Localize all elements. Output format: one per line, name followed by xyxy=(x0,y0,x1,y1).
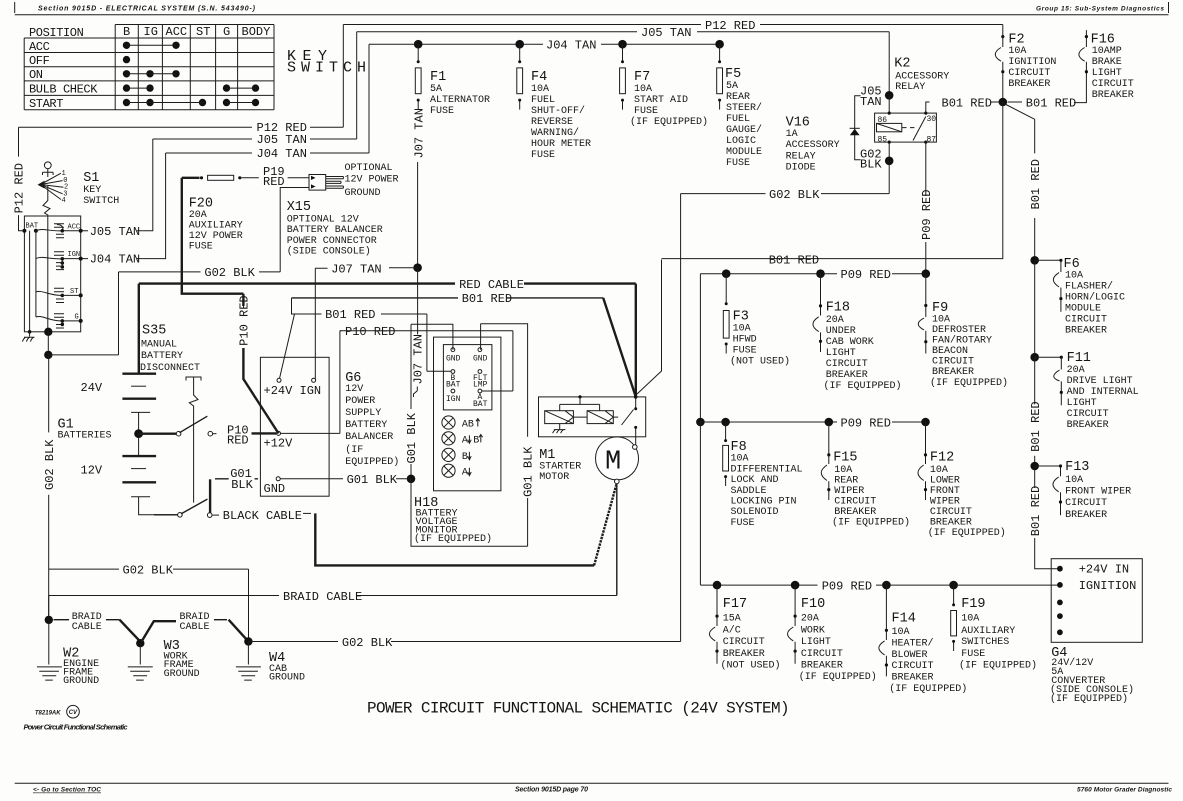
svg-text:(IF EQUIPPED): (IF EQUIPPED) xyxy=(959,660,1037,672)
svg-text:G01 BLK: G01 BLK xyxy=(347,473,398,487)
battery mid tap junction xyxy=(134,429,143,438)
wire P10 RED label row xyxy=(340,330,513,332)
wire J05 TAN drop to K2 xyxy=(888,32,890,96)
wire P12 RED left row xyxy=(19,126,344,128)
svg-text:BRAKE: BRAKE xyxy=(1092,57,1122,68)
svg-text:CV: CV xyxy=(69,710,78,716)
wire P19 RED to X15 xyxy=(288,177,309,179)
ground W2 junction xyxy=(45,616,53,624)
wire solenoid to motor terminal xyxy=(635,437,637,445)
svg-text:12V: 12V xyxy=(81,464,103,478)
junction B01/F2 xyxy=(999,98,1008,107)
wire J04 TAN left row xyxy=(166,152,369,154)
solenoid coil link xyxy=(573,416,618,418)
connector X15 xyxy=(309,175,326,191)
G4 pins xyxy=(1057,566,1063,572)
svg-text:BLK: BLK xyxy=(231,478,253,492)
svg-text:(NOT USED): (NOT USED) xyxy=(721,660,781,672)
wire X15 ground exit xyxy=(280,188,309,272)
svg-text:SADDLE: SADDLE xyxy=(731,486,767,497)
svg-text:AND INTERNAL: AND INTERNAL xyxy=(1067,387,1139,398)
svg-text:BREAKER: BREAKER xyxy=(1067,420,1109,431)
wire BRAID CABLE long row xyxy=(49,595,617,597)
svg-text:DRIVE LIGHT: DRIVE LIGHT xyxy=(1067,376,1133,387)
svg-text:F15: F15 xyxy=(833,451,857,466)
svg-text:G02 BLK: G02 BLK xyxy=(342,636,393,650)
svg-text:MOTOR: MOTOR xyxy=(539,472,569,483)
svg-text:12V POWER: 12V POWER xyxy=(189,231,243,242)
junction J05/K2 xyxy=(885,91,894,100)
wire P09 bus row2 to row3 xyxy=(699,422,701,585)
svg-text:(IF EQUIPPED): (IF EQUIPPED) xyxy=(414,533,492,545)
svg-text:SWITCH: SWITCH xyxy=(83,196,119,207)
ground symbol W4 xyxy=(236,667,261,680)
svg-text:BLK: BLK xyxy=(860,158,882,172)
G6 +24V pin xyxy=(277,378,281,382)
G6 GND pin xyxy=(276,477,280,481)
svg-text:STARTER: STARTER xyxy=(539,462,581,473)
starter solenoid box xyxy=(539,397,646,437)
H18 B BAT / FLT LMP pins xyxy=(451,370,455,374)
svg-text:G: G xyxy=(75,314,79,322)
svg-text:F17: F17 xyxy=(723,597,747,612)
svg-text:P09 RED: P09 RED xyxy=(841,416,891,430)
svg-text:(IF EQUIPPED): (IF EQUIPPED) xyxy=(799,671,877,683)
wire P09 RED row 3 xyxy=(700,584,1057,586)
svg-text:24V: 24V xyxy=(81,381,103,395)
svg-text:HOUR METER: HOUR METER xyxy=(531,139,591,150)
svg-text:1A: 1A xyxy=(786,129,798,140)
wire K2 30 riser to B01 RED xyxy=(926,102,1003,113)
table row OFF dot xyxy=(123,56,130,63)
breaker F13 xyxy=(1035,466,1061,515)
svg-text:G02 BLK: G02 BLK xyxy=(123,563,174,577)
svg-text:BRAID CABLE: BRAID CABLE xyxy=(283,590,362,604)
junction row3/F10 xyxy=(791,581,800,590)
wire riser P12 RED xyxy=(342,25,344,128)
svg-text:Power Circuit Functional Schem: Power Circuit Functional Schematic xyxy=(24,723,129,732)
wire G02 BLK left bottom row xyxy=(49,568,249,570)
svg-text:10A: 10A xyxy=(1065,475,1083,486)
svg-text:10A: 10A xyxy=(1065,271,1083,282)
G6 IGN pin xyxy=(312,378,316,382)
svg-text:12V: 12V xyxy=(345,384,363,395)
svg-text:ACC: ACC xyxy=(166,25,188,39)
svg-text:CIRCUIT: CIRCUIT xyxy=(801,649,843,660)
svg-text:START: START xyxy=(29,97,63,111)
G6 +12V pin xyxy=(277,431,281,435)
svg-text:GAUGE/: GAUGE/ xyxy=(726,124,762,136)
junction B01/F13 xyxy=(1030,462,1039,471)
svg-text:REVERSE: REVERSE xyxy=(531,117,573,128)
breaker F16 xyxy=(1074,30,1086,103)
ground W4 junction xyxy=(244,637,252,645)
junction J04/F4 xyxy=(515,40,524,49)
svg-text:B01 RED: B01 RED xyxy=(1029,159,1043,209)
balancer G6 box xyxy=(260,357,329,496)
junction row2/F15 xyxy=(825,418,834,427)
svg-text:B: B xyxy=(473,435,479,446)
chassis ground under S1 xyxy=(23,332,35,342)
table row START dots xyxy=(123,99,130,106)
svg-text:(IF EQUIPPED): (IF EQUIPPED) xyxy=(928,527,1006,539)
diode V16 branch wire xyxy=(855,96,861,160)
svg-text:ACCESSORY: ACCESSORY xyxy=(786,140,840,151)
svg-text:P10 RED: P10 RED xyxy=(238,295,252,345)
key switch S1 rotary fan xyxy=(38,181,45,189)
svg-text:+24V IN: +24V IN xyxy=(1079,563,1129,577)
svg-text:POWER CONNECTOR: POWER CONNECTOR xyxy=(287,236,377,247)
svg-text:START AID: START AID xyxy=(634,95,688,106)
svg-text:FUEL: FUEL xyxy=(531,95,555,106)
svg-text:POWER: POWER xyxy=(345,396,375,407)
breaker F9 xyxy=(918,274,926,354)
svg-text:G01 BLK: G01 BLK xyxy=(522,446,536,497)
wire B BAT riser xyxy=(427,314,453,371)
svg-text:(NOT USED): (NOT USED) xyxy=(730,356,790,368)
S1 box bottom junction xyxy=(44,328,52,336)
junction row1/F9 xyxy=(922,269,931,278)
wire H18 GND1 to G01 riser xyxy=(411,324,453,350)
wire W2 ground lead xyxy=(48,620,50,665)
breaker F6 xyxy=(1035,260,1061,311)
wire G02 BLK far-left vertical xyxy=(48,355,50,620)
key switch spring zigzag xyxy=(43,186,50,216)
key switch position table grid xyxy=(24,25,274,110)
svg-text:CAB WORK: CAB WORK xyxy=(826,337,874,348)
svg-text:(SIDE CONSOLE): (SIDE CONSOLE) xyxy=(287,246,371,258)
svg-text:F7: F7 xyxy=(634,70,650,85)
svg-text:BEACON: BEACON xyxy=(932,346,968,357)
svg-text:AUXILIARY: AUXILIARY xyxy=(961,626,1015,637)
H18 lamp A down B up xyxy=(442,432,455,445)
svg-text:LOWER: LOWER xyxy=(930,476,960,487)
svg-text:12V POWER: 12V POWER xyxy=(345,174,399,185)
svg-text:F16: F16 xyxy=(1091,32,1115,47)
wire K2 85 to G02 junction xyxy=(888,142,890,194)
svg-text:ACCESSORY: ACCESSORY xyxy=(895,72,949,83)
svg-text:F3: F3 xyxy=(733,310,749,325)
wire P09 RED row 2 xyxy=(700,421,925,423)
S35 upper right terminal xyxy=(208,431,213,436)
svg-text:F12: F12 xyxy=(930,451,954,466)
wire P12 RED left vertical to BAT xyxy=(19,127,25,231)
svg-text:LIGHT: LIGHT xyxy=(1092,68,1122,79)
svg-text:G: G xyxy=(223,25,230,39)
svg-text:S35: S35 xyxy=(142,323,166,338)
wire J04 TAN top row xyxy=(369,43,720,45)
svg-text:GROUND: GROUND xyxy=(63,676,99,687)
junction row3/F17 xyxy=(713,581,722,590)
wire J04 TAN vertical to key switch xyxy=(142,153,165,259)
wire B01 RED vertical from F2 xyxy=(662,102,1003,259)
header rule xyxy=(15,2,1169,15)
solenoid coil bridge xyxy=(560,397,600,411)
svg-text:5760 Motor Grader Diagnostic: 5760 Motor Grader Diagnostic xyxy=(1077,787,1172,794)
fuse F19 xyxy=(953,585,955,605)
wire A BAT riser xyxy=(480,331,513,391)
svg-text:B01 RED: B01 RED xyxy=(1029,401,1043,451)
junction J04/F1 xyxy=(414,40,423,49)
svg-text:RELAY: RELAY xyxy=(786,151,816,162)
solenoid switch blade xyxy=(622,397,636,437)
svg-text:Group 15: Sub-System Diagnosti: Group 15: Sub-System Diagnostics xyxy=(1036,6,1164,13)
motor upper terminal xyxy=(633,445,638,450)
svg-text:WIPER: WIPER xyxy=(930,497,960,508)
svg-text:IGN: IGN xyxy=(68,251,81,259)
junction bus/row2 xyxy=(696,418,705,427)
svg-text:A: A xyxy=(462,468,468,479)
svg-text:KEY: KEY xyxy=(83,185,101,196)
braid cable label dash W2 xyxy=(54,619,70,621)
svg-text:LOCKING PIN: LOCKING PIN xyxy=(731,497,797,508)
svg-text:FAN/ROTARY: FAN/ROTARY xyxy=(932,335,992,347)
S35 upper left terminal xyxy=(176,431,181,436)
table row BULB CHECK dots xyxy=(123,84,130,91)
svg-text:(IF EQUIPPED): (IF EQUIPPED) xyxy=(832,517,910,529)
wire P09 bus row1 to row2 xyxy=(699,274,701,422)
svg-text:CIRCUIT: CIRCUIT xyxy=(932,357,974,368)
svg-text:ACC: ACC xyxy=(29,40,50,54)
svg-text:F19: F19 xyxy=(961,597,985,612)
svg-text:REAR: REAR xyxy=(834,476,858,487)
svg-text:DISCONNECT: DISCONNECT xyxy=(140,363,200,374)
svg-text:CIRCUIT: CIRCUIT xyxy=(834,497,876,508)
svg-text:OPTIONAL: OPTIONAL xyxy=(345,163,393,174)
svg-text:IG: IG xyxy=(144,25,158,39)
battery + stem to RED CABLE xyxy=(138,284,140,374)
S35 lower left terminal xyxy=(178,513,183,518)
ST contact row xyxy=(54,288,64,302)
svg-text:MODULE: MODULE xyxy=(1065,304,1101,315)
diagonal B01 to right bus xyxy=(1004,104,1035,120)
ground symbol W3 xyxy=(128,667,153,680)
junction G02/K2 xyxy=(885,157,894,166)
S35 upper blade xyxy=(180,416,208,433)
svg-text:15A: 15A xyxy=(723,614,741,625)
svg-text:J04 TAN: J04 TAN xyxy=(90,253,140,267)
battery G1 12V cell plates xyxy=(138,434,140,456)
svg-text:P12 RED: P12 RED xyxy=(705,19,755,33)
svg-text:J07 TAN: J07 TAN xyxy=(412,108,426,158)
svg-text:ST: ST xyxy=(70,288,78,296)
svg-text:BATTERY: BATTERY xyxy=(345,420,387,431)
svg-text:10A: 10A xyxy=(731,454,749,465)
svg-text:HORN/LOGIC: HORN/LOGIC xyxy=(1065,292,1125,304)
junction row1/F18 xyxy=(816,269,825,278)
wire P12 RED top row xyxy=(343,24,1003,26)
svg-text:BALANCER: BALANCER xyxy=(345,432,393,443)
breaker F11 xyxy=(1035,357,1062,405)
junction G01 BLK xyxy=(407,475,416,484)
monitor H18 outer box xyxy=(434,337,501,491)
svg-text:J04 TAN: J04 TAN xyxy=(546,39,596,53)
H18 IGN / A BAT pins xyxy=(451,389,455,393)
H18 lamp AB up xyxy=(442,416,455,429)
svg-text:FLASHER/: FLASHER/ xyxy=(1065,281,1113,293)
svg-text:S1: S1 xyxy=(83,171,99,186)
svg-text:B01 RED: B01 RED xyxy=(769,253,819,267)
svg-text:MODULE: MODULE xyxy=(726,147,762,158)
svg-text:GROUND: GROUND xyxy=(345,188,381,199)
wire riser J05 TAN xyxy=(356,32,358,139)
junction J04/F5 xyxy=(715,40,724,49)
svg-text:ALTERNATOR: ALTERNATOR xyxy=(430,95,490,106)
svg-text:20A: 20A xyxy=(189,210,207,221)
relay K2 box xyxy=(875,113,937,142)
svg-text:P09 RED: P09 RED xyxy=(822,579,872,593)
solenoid internal ground xyxy=(553,424,566,434)
solenoid coil 1 xyxy=(545,411,574,424)
wire B01 RED G6 label row xyxy=(292,298,427,314)
svg-text:85: 85 xyxy=(878,136,888,145)
svg-text:BREAKER: BREAKER xyxy=(1008,79,1050,90)
svg-text:FRONT WIPER: FRONT WIPER xyxy=(1065,486,1131,497)
svg-text:F18: F18 xyxy=(826,301,850,316)
svg-text:FUSE: FUSE xyxy=(961,649,985,660)
breaker F17 xyxy=(709,585,717,664)
svg-text:BLOWER: BLOWER xyxy=(892,650,928,661)
svg-text:FUSE: FUSE xyxy=(531,150,555,161)
svg-text:SUPPLY: SUPPLY xyxy=(345,408,381,419)
G contact row xyxy=(54,314,64,328)
H18 GND pins xyxy=(451,348,455,352)
solenoid top pins xyxy=(578,395,581,398)
svg-text:CABLE: CABLE xyxy=(180,622,210,633)
monitor H18 inner box xyxy=(443,345,492,410)
svg-text:(IF EQUIPPED): (IF EQUIPPED) xyxy=(630,116,708,128)
starter motor M1 circle xyxy=(596,437,639,480)
svg-text:OPTIONAL 12V: OPTIONAL 12V xyxy=(287,215,359,226)
svg-text:P10 RED: P10 RED xyxy=(345,325,395,339)
svg-text:20A: 20A xyxy=(1067,365,1085,376)
svg-text:J05 TAN: J05 TAN xyxy=(641,26,691,40)
wire W4 ground lead xyxy=(247,642,249,665)
svg-text:G02 BLK: G02 BLK xyxy=(204,266,255,280)
svg-text:CIRCUIT: CIRCUIT xyxy=(1065,498,1107,509)
svg-text:AUXILIARY: AUXILIARY xyxy=(189,221,243,232)
svg-text:MANUAL: MANUAL xyxy=(141,340,177,351)
wire B01 RED right bus xyxy=(1034,119,1036,260)
svg-text:WIPER: WIPER xyxy=(834,486,864,497)
fuse F4 xyxy=(519,44,521,62)
svg-text:A: A xyxy=(462,435,468,446)
svg-text:G01 BLK: G01 BLK xyxy=(405,412,419,463)
svg-text:DEFROSTER: DEFROSTER xyxy=(932,325,986,336)
svg-text:5A: 5A xyxy=(726,81,738,92)
svg-text:B01 RED: B01 RED xyxy=(1026,96,1076,110)
wire B01 bus F11 to F13 xyxy=(1034,357,1036,466)
svg-text:BREAKER: BREAKER xyxy=(723,649,765,660)
svg-text:Section 9015D - ELECTRICAL SYS: Section 9015D - ELECTRICAL SYSTEM (S.N. … xyxy=(38,6,256,13)
svg-text:X15: X15 xyxy=(287,200,311,215)
wire P12 RED drop to F2 xyxy=(1002,25,1004,37)
svg-text:B: B xyxy=(462,452,468,463)
wire S1 to G02 BLK xyxy=(47,332,49,355)
wire motor to braid row xyxy=(616,484,618,596)
svg-text:+12V: +12V xyxy=(264,437,294,451)
svg-text:POSITION: POSITION xyxy=(29,26,84,40)
fuse F5 xyxy=(719,44,721,62)
svg-text:FUSE: FUSE xyxy=(634,106,658,117)
svg-text:GROUND: GROUND xyxy=(164,669,200,680)
key switch S1 key symbol xyxy=(44,162,51,169)
BAT terminal dots xyxy=(22,229,26,233)
ground symbol W2 xyxy=(37,667,62,680)
junction B01/F11 xyxy=(1030,353,1039,362)
svg-text:20A: 20A xyxy=(826,315,844,326)
wire J07 TAN vertical xyxy=(417,162,419,268)
svg-text:10A: 10A xyxy=(1008,46,1026,57)
svg-text:87: 87 xyxy=(927,136,937,145)
svg-text:(IF EQUIPPED): (IF EQUIPPED) xyxy=(930,377,1008,389)
svg-text:J05 TAN: J05 TAN xyxy=(257,133,307,147)
svg-text:4: 4 xyxy=(62,197,66,205)
svg-text:T8219AK: T8219AK xyxy=(35,711,61,717)
svg-text:CIRCUIT: CIRCUIT xyxy=(1008,68,1050,79)
svg-text:LIGHT: LIGHT xyxy=(826,348,856,359)
wire B01 RED thin from right bus xyxy=(637,260,662,395)
wire G01 BLK down to S35 xyxy=(209,479,211,513)
svg-text:J05 TAN: J05 TAN xyxy=(90,225,140,239)
fuse F20 with heavy feed xyxy=(182,178,244,306)
junction row3/F14 xyxy=(882,581,891,590)
svg-text:5A: 5A xyxy=(430,84,442,95)
wire G01 BLK riser xyxy=(410,324,412,479)
wire B01 RED dash to F16 xyxy=(1008,101,1023,103)
svg-text:BLACK CABLE: BLACK CABLE xyxy=(223,509,302,523)
braid cable thick zigzag to W4 xyxy=(214,619,227,621)
svg-text:WORK: WORK xyxy=(801,626,825,637)
svg-text:BAT: BAT xyxy=(446,381,461,390)
svg-text:DIFFERENTIAL: DIFFERENTIAL xyxy=(731,464,803,475)
svg-text:BREAKER: BREAKER xyxy=(932,367,974,378)
svg-text:BATTERY: BATTERY xyxy=(141,351,183,362)
svg-text:10A: 10A xyxy=(961,614,979,625)
junction J04/F7 xyxy=(618,40,627,49)
fuse F7 xyxy=(622,44,624,62)
svg-text:10A: 10A xyxy=(634,84,652,95)
wire G01 BLK row from G6 GND xyxy=(215,478,258,480)
breaker F14 xyxy=(879,585,887,676)
svg-text:10A: 10A xyxy=(892,627,910,638)
key switch stem xyxy=(47,216,49,332)
svg-text:REAR: REAR xyxy=(726,92,750,103)
wire BLACK CABLE thick run xyxy=(303,512,311,514)
footer rule xyxy=(15,782,1169,784)
svg-text:BAT: BAT xyxy=(473,400,488,409)
wire riser to W4 xyxy=(248,569,250,641)
svg-text:RELAY: RELAY xyxy=(895,82,925,93)
braid cable hatched diagonal to starter xyxy=(594,483,617,565)
svg-text:POWER CIRCUIT FUNCTIONAL SCHEM: POWER CIRCUIT FUNCTIONAL SCHEMATIC (24V … xyxy=(367,700,789,718)
breaker F2 xyxy=(1001,35,1004,38)
svg-text:RED CABLE: RED CABLE xyxy=(459,278,524,292)
svg-text:FUSE: FUSE xyxy=(726,158,750,169)
svg-text:FUEL: FUEL xyxy=(726,114,750,125)
svg-text:FUSE: FUSE xyxy=(430,106,454,117)
fuse F1 xyxy=(417,44,419,62)
svg-text:LMP: LMP xyxy=(473,381,488,390)
wire J05 TAN top row xyxy=(357,31,890,33)
svg-text:CIRCUIT: CIRCUIT xyxy=(892,661,934,672)
braid cable thick zigzag from W3 xyxy=(142,621,177,641)
svg-text:(IF EQUIPPED): (IF EQUIPPED) xyxy=(824,380,902,392)
svg-text:20A: 20A xyxy=(801,614,819,625)
svg-text:CIRCUIT: CIRCUIT xyxy=(930,507,972,518)
S35 lower pole wire from battery xyxy=(154,514,178,516)
svg-text:BREAKER: BREAKER xyxy=(1065,510,1107,521)
